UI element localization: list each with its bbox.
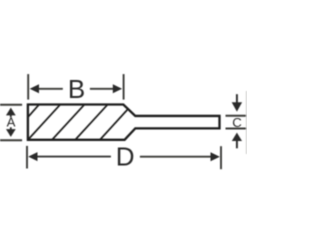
dim B right extension line: [123, 74, 125, 100]
hatch line 5: [100, 109, 128, 140]
svg-text:A: A: [7, 115, 16, 130]
dim A bottom extension line: [0, 139, 22, 141]
dim C bottom extension line: [226, 128, 248, 130]
dim D left extension line: [26, 146, 28, 169]
dim B right arrowhead: [113, 84, 122, 93]
dim D right extension line: [220, 146, 222, 169]
dim B line left segment: [37, 88, 63, 90]
dim C up arrow: [236, 141, 238, 149]
dim D left arrowhead: [28, 152, 37, 161]
svg-text:D: D: [116, 141, 135, 171]
dim A up arrow: [6, 108, 16, 116]
faint right-edge artifact: [245, 91, 247, 154]
burr head and shank outline: [28, 105, 220, 140]
dim D line right segment: [140, 156, 213, 158]
hatch line short top-left: [28, 105, 39, 117]
hatch line 3: [52, 105, 84, 140]
dim D line left segment: [36, 156, 111, 158]
dim D right arrowhead: [211, 152, 220, 161]
dim C down arrow: [236, 94, 238, 103]
dim B left arrowhead: [30, 84, 39, 93]
dim B left extension line: [27, 74, 29, 100]
dim A down arrow: [6, 129, 16, 137]
hatch line 4: [76, 105, 108, 140]
dim A top extension line: [0, 104, 22, 106]
hatch line 2: [28, 105, 60, 140]
dim C top extension line: [226, 115, 248, 117]
svg-text:B: B: [68, 74, 85, 104]
svg-text:C: C: [232, 115, 242, 130]
dim B line right segment: [90, 88, 116, 90]
